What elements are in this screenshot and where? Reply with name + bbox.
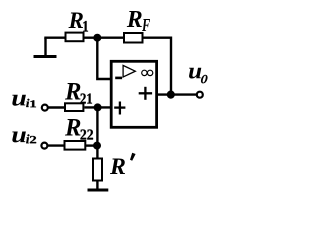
wire R22 to node xyxy=(85,144,97,146)
label R22 xyxy=(65,119,81,136)
label R' xyxy=(110,159,125,175)
node non-inverting junction xyxy=(94,103,102,111)
resistor R22 xyxy=(65,141,86,150)
terminal u_i2 xyxy=(41,143,47,149)
terminal u_o xyxy=(197,92,203,98)
op-amp non-inverting plus sign xyxy=(114,102,125,115)
op-amp output plus sign xyxy=(139,87,152,100)
node output junction xyxy=(167,91,175,99)
resistor R1 xyxy=(66,33,84,42)
op-amp U1 xyxy=(111,61,156,127)
label R21 xyxy=(65,83,81,100)
wire RF to output node xyxy=(143,38,172,91)
label R1 xyxy=(69,13,84,29)
label u_i1 xyxy=(12,95,26,106)
wire op-amp output to terminal xyxy=(157,93,197,95)
resistor RF xyxy=(124,33,143,43)
terminal u_i1 xyxy=(42,105,48,111)
resistor R21 xyxy=(65,103,83,111)
wire R21 to op-amp xyxy=(84,106,110,108)
node A (inverting input node) xyxy=(93,34,101,42)
op-amp infinity symbol xyxy=(142,70,153,75)
wire u_i1 to R21 xyxy=(48,106,65,108)
label u_o xyxy=(189,68,201,79)
node R22 junction xyxy=(93,142,101,150)
label u_i2 xyxy=(12,132,26,143)
op-amp minus sign xyxy=(115,77,122,80)
wire R' to ground xyxy=(96,181,98,190)
resistor R' xyxy=(93,159,102,181)
ground (top-left) xyxy=(34,38,57,57)
op-amp triangle symbol xyxy=(123,65,135,77)
label RF xyxy=(127,11,142,27)
wire ground to R1 xyxy=(44,37,64,39)
wire u_i2 to R22 xyxy=(48,144,65,146)
wire connecting both input nodes down to R' xyxy=(96,107,98,158)
wire node A down to op-amp inverting input xyxy=(97,38,110,79)
wire R1 to RF xyxy=(85,37,125,39)
ground (bottom) xyxy=(88,189,109,192)
